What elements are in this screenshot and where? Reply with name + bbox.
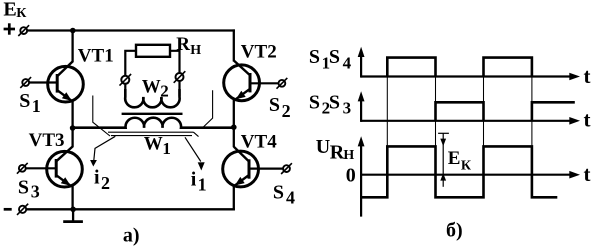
wire VT2 base lead [250,82,279,84]
axis S1S4 horizontal with arrow [361,73,580,81]
svg-text:2: 2 [101,173,110,193]
svg-text:S: S [269,94,280,116]
svg-text:К: К [461,159,472,174]
svg-text:VT3: VT3 [29,130,65,151]
dimension EK lower arrowhead [440,173,446,180]
svg-text:t: t [584,162,591,186]
svg-text:E: E [448,148,461,169]
svg-text:i: i [191,168,197,190]
label W2 [142,76,169,100]
node mid-right junction [231,124,237,130]
svg-text:3: 3 [31,182,40,202]
wire VT4 base lead [249,168,283,170]
svg-text:S: S [329,92,340,114]
transistor VT3 [47,147,83,188]
svg-text:1: 1 [32,96,41,116]
wire RH left lead down to W2 [125,51,136,97]
wire VT3 emitter to bottom rail [71,186,73,209]
annotation thin stub right [204,90,213,127]
axis URH vertical [358,136,365,216]
terminal S4 [281,163,292,174]
label RH [176,34,201,58]
svg-text:VT1: VT1 [78,45,114,66]
resistor RH [136,45,170,57]
terminal + input [18,25,29,36]
terminal - input [17,204,28,215]
grid line t3 [483,58,485,147]
label S2 [269,94,291,121]
svg-text:0: 0 [346,164,356,186]
wire VT1 emitter to mid-left node [71,101,73,128]
label S4 [273,181,295,207]
axis S2S3 vertical [358,91,365,122]
wire VT1 collector drop [71,31,73,63]
wire top rail [27,29,235,31]
svg-text:VT2: VT2 [241,41,277,62]
svg-text:а): а) [123,224,140,246]
svg-text:E: E [3,0,16,21]
wire right column VT2 emitter to mid-right node [233,100,235,127]
dimension EK upper arrowhead [440,139,446,147]
svg-text:S: S [329,46,340,68]
grid line t4 [531,58,533,147]
current arrow i2 [90,136,115,166]
winding W1 with horizontal wire between mid nodes [73,118,234,128]
axis S2S3 horizontal with arrow [361,117,580,125]
axis S1S4 vertical [358,47,365,78]
svg-text:W: W [142,76,161,97]
svg-text:VT4: VT4 [241,131,277,152]
svg-text:1: 1 [198,174,207,194]
waveform URH bipolar [361,146,557,197]
transistor VT1 [48,62,84,102]
terminal W2 right [174,71,186,83]
current arrow i1 [185,137,205,170]
terminal S2 [277,78,288,89]
svg-text:t: t [584,107,591,131]
svg-text:S: S [309,92,320,114]
wire VT4 collector from mid-right node [233,127,235,147]
wire right column top (to VT2 collector) [233,29,235,61]
node bottom junction [70,207,76,213]
transformer core [122,113,183,115]
label S1S4 [309,46,352,72]
wire VT3 base lead [26,167,56,169]
svg-text:3: 3 [343,99,352,118]
terminal S3 [17,163,28,174]
node top junction [70,28,76,34]
label i1 [191,168,207,194]
wire VT4 emitter to bottom rail [233,186,235,210]
label S2S3 [309,92,351,118]
wire VT3 collector from mid-left node [71,128,73,147]
svg-text:t: t [584,64,591,88]
label i2 [94,166,110,193]
label W1 [144,134,171,158]
svg-text:S: S [18,176,29,198]
svg-text:2: 2 [282,101,291,121]
node mid-left junction [70,125,76,131]
label S1 [19,90,41,116]
transistor VT2 [224,61,260,101]
label Ek supply voltage [3,0,27,21]
axis URH horizontal zero line with arrow [361,171,580,179]
svg-text:S: S [273,181,284,203]
grid line t2 [435,58,437,147]
terminal W2 left [120,74,132,86]
dimension EK line with tick [438,133,449,187]
svg-text:H: H [190,43,201,58]
annotation small diagonal at double-line end [194,132,199,136]
svg-text:4: 4 [286,188,295,208]
label S3 [18,176,40,201]
svg-text:S: S [19,90,30,112]
svg-text:U: U [316,136,330,158]
waveform S2S3 pulses [436,102,575,121]
ground [63,209,83,221]
grid line t1 [386,58,388,147]
svg-text:2: 2 [160,81,169,100]
svg-text:W: W [144,134,163,155]
annotation thin double line under W1 [108,131,194,133]
plus polarity mark [4,23,15,34]
label EK amplitude [448,148,472,173]
svg-text:1: 1 [162,139,171,158]
label URH [316,136,355,164]
wire RH right lead down to W2 [170,51,180,97]
winding W2 [125,89,179,107]
svg-text:б): б) [446,219,463,241]
annotation thin stub left [93,96,110,137]
wire VT1 base lead [29,81,57,83]
transistor VT4 [223,147,259,187]
svg-text:H: H [343,148,354,163]
waveform S1S4 pulses [387,58,532,77]
svg-text:4: 4 [343,53,352,72]
terminal S1 [20,77,31,88]
svg-text:i: i [94,166,100,188]
minus polarity mark [4,208,12,211]
svg-text:К: К [16,6,27,21]
svg-text:S: S [309,46,320,68]
wire bottom rail [26,208,235,210]
